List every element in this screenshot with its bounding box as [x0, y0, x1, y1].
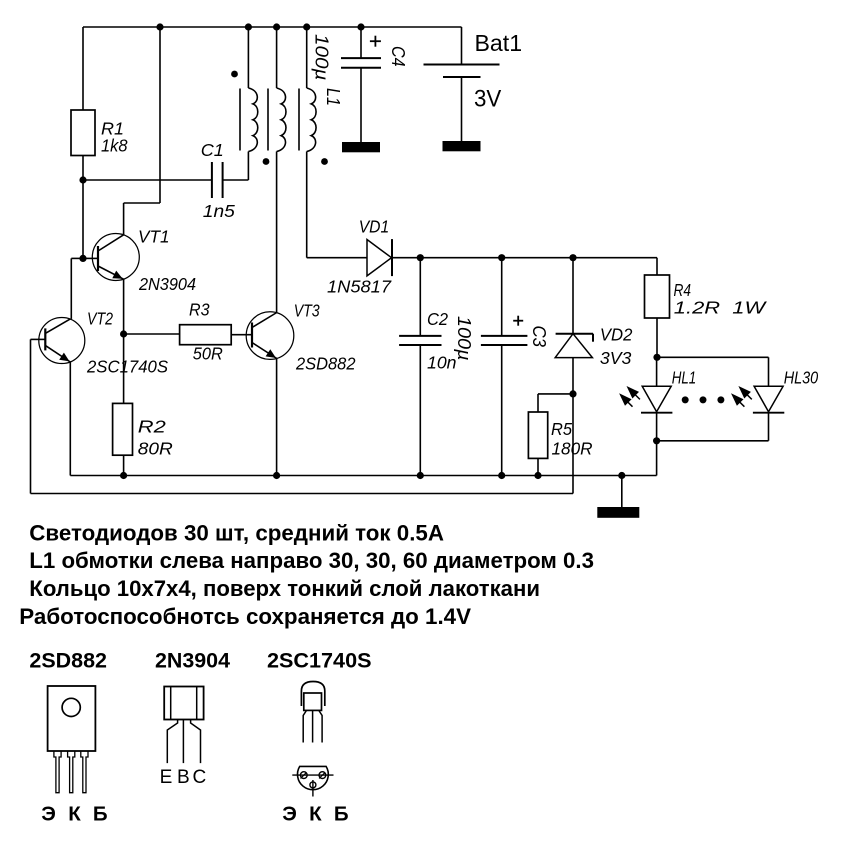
transistor VT3	[246, 312, 294, 360]
node R4/HL junction	[653, 354, 660, 361]
svg-text:E: E	[160, 767, 173, 788]
svg-text:Б: Б	[93, 803, 108, 826]
package 2SC1740S body	[304, 693, 322, 710]
svg-text:HL30: HL30	[784, 368, 819, 388]
wire HL1 cathode	[656, 413, 658, 441]
wire HL1 anode	[656, 357, 658, 386]
wire VT1 collector up	[123, 203, 125, 235]
wire top supply rail	[83, 26, 462, 28]
wire winding3 top	[306, 27, 308, 88]
wire R5 top	[538, 393, 573, 395]
node C2 top junction	[417, 254, 424, 261]
battery Bat1 long plate	[424, 64, 500, 66]
svg-text:К: К	[309, 803, 322, 826]
package 2N3904 leg C	[191, 720, 201, 764]
package 2SD882 hole	[62, 698, 80, 716]
svg-text:Кольцо 10х7х4, поверх тонкий с: Кольцо 10х7х4, поверх тонкий слой лакотк…	[29, 576, 540, 601]
node R2 on rail	[120, 472, 127, 479]
node winding2 top junction	[273, 23, 280, 30]
svg-text:180R: 180R	[552, 439, 593, 459]
svg-text:C4: C4	[388, 46, 408, 67]
wire HL top rail	[657, 356, 769, 358]
wire bottom emitter rail	[70, 475, 656, 477]
wire C3 bottom	[501, 345, 503, 476]
package 2SC1740S bottom view outline	[298, 766, 329, 789]
package 2N3904 leg E	[167, 720, 177, 764]
svg-text:2SC1740S: 2SC1740S	[86, 357, 168, 377]
svg-text:3V: 3V	[474, 86, 501, 113]
wire HL30 anode	[768, 357, 770, 386]
package 2SC1740S dome	[301, 682, 324, 707]
node winding1 top junction	[245, 23, 252, 30]
svg-text:50R: 50R	[193, 344, 223, 364]
wire to Bat1	[461, 27, 463, 65]
svg-text:2SC1740S: 2SC1740S	[267, 650, 372, 673]
wire R3 to VT3 base	[231, 334, 252, 336]
node C3 top junction	[498, 254, 505, 261]
package 2SC1740S pin E circle	[300, 772, 307, 779]
svg-text:R2: R2	[138, 417, 166, 437]
svg-text:100µ: 100µ	[312, 34, 332, 81]
LED HL30 arrows	[738, 386, 751, 399]
wire junction to R3	[124, 333, 180, 335]
wire winding3 to VD1	[307, 257, 367, 259]
svg-text:VD2: VD2	[600, 325, 633, 345]
zener diode VD2	[555, 334, 592, 358]
phase dot winding1	[231, 71, 238, 78]
package 2N3904 leg B	[182, 720, 184, 764]
ground main	[597, 507, 639, 518]
wire R1 bottom	[82, 156, 84, 181]
plus sign C4	[370, 40, 381, 42]
resistor R3	[180, 325, 232, 345]
svg-text:L1: L1	[323, 88, 343, 106]
svg-text:VT3: VT3	[294, 301, 320, 321]
svg-text:1n5: 1n5	[203, 201, 235, 221]
wire C1 to winding1	[223, 179, 249, 181]
wire VD1 cathode to R4	[392, 257, 657, 259]
svg-text:VT2: VT2	[87, 309, 113, 329]
node C2 bottom junction	[417, 472, 424, 479]
wire Bat1 bottom	[461, 77, 463, 141]
wire VT1 emitter down	[123, 279, 125, 334]
wire C3 top	[501, 258, 503, 336]
wire VT3 emitter down	[276, 358, 278, 475]
wire feedback bottom	[31, 493, 574, 495]
svg-text:C2: C2	[427, 309, 448, 329]
svg-text:1N5817: 1N5817	[327, 277, 392, 297]
package 2SC1740S crosshair	[292, 774, 333, 776]
svg-text:2N3904: 2N3904	[155, 650, 230, 673]
package 2SC1740S pin B circle	[319, 772, 326, 779]
svg-text:Э: Э	[282, 803, 297, 826]
svg-text:C: C	[193, 767, 207, 788]
ground Bat1	[443, 141, 481, 151]
resistor R4	[645, 275, 670, 318]
package 2SD882 body	[48, 686, 96, 751]
diode VD1	[367, 240, 392, 276]
capacitor C2	[399, 335, 441, 337]
wire winding2 top	[276, 27, 278, 88]
svg-text:2N3904: 2N3904	[138, 274, 196, 294]
wire vertical from top rail to VT1 collector jog	[159, 27, 161, 203]
node C3 bottom junction	[498, 472, 505, 479]
node top rail junction x160	[156, 23, 163, 30]
transistor VT2	[39, 318, 85, 364]
node VT3 emitter on rail	[273, 472, 280, 479]
wire VT1 base	[83, 257, 98, 259]
svg-text:C3: C3	[529, 326, 549, 348]
capacitor C3	[481, 335, 528, 337]
inductor L1 winding 3	[307, 88, 316, 152]
svg-text:Светодиодов 30 шт, средний ток: Светодиодов 30 шт, средний ток 0.5А	[29, 521, 444, 546]
node winding3 top junction	[303, 23, 310, 30]
capacitor C1	[211, 162, 213, 198]
wire junction to R2	[123, 334, 125, 403]
svg-text:2SD882: 2SD882	[29, 650, 107, 673]
svg-text:VT1: VT1	[138, 227, 170, 247]
transformer L1 core bar 2	[267, 89, 269, 151]
svg-text:R3: R3	[189, 300, 210, 320]
svg-text:Работоспособнотсь сохраняется: Работоспособнотсь сохраняется до 1.4V	[19, 604, 471, 629]
wire C4 bottom	[360, 68, 362, 142]
wire ground stub	[621, 476, 623, 508]
phase dot winding3	[321, 158, 328, 165]
wire jog to VT1 collector	[124, 202, 160, 204]
node R5 bottom junction	[534, 472, 541, 479]
node VD2/R5 junction	[569, 390, 576, 397]
wire winding2 to VT3 collector	[276, 152, 278, 314]
wire HL bottom rail	[657, 440, 769, 442]
wire R5 bottom	[537, 458, 539, 475]
node VT1 emitter/R3/R2 junction	[120, 330, 127, 337]
svg-text:Э: Э	[41, 803, 56, 826]
wire to C1	[83, 179, 212, 181]
phase dot winding2	[263, 158, 270, 165]
svg-text:Bat1: Bat1	[475, 30, 523, 56]
battery Bat1 short plate	[443, 76, 481, 78]
package 2N3904 bevel lines	[170, 687, 172, 720]
capacitor C4	[341, 57, 381, 59]
wire HL30 cathode	[768, 413, 770, 441]
svg-text:2SD882: 2SD882	[295, 354, 356, 374]
transformer L1 core bar 3	[298, 89, 300, 151]
ellipsis dots between LEDs	[682, 396, 689, 403]
svg-text:100µ: 100µ	[454, 316, 474, 361]
wire VD2 anode down	[572, 358, 574, 494]
svg-text:3V3: 3V3	[600, 348, 632, 368]
svg-text:1k8: 1k8	[101, 136, 128, 156]
wire VD1 row to R4	[656, 258, 658, 275]
plus sign C3	[513, 320, 523, 322]
wire feedback left vertical	[30, 339, 32, 493]
wire VD2 top	[572, 258, 574, 334]
resistor R2	[113, 403, 133, 455]
package 2N3904 body	[164, 687, 203, 720]
svg-text:Б: Б	[334, 803, 349, 826]
svg-text:L1 обмотки слева направо 30, 3: L1 обмотки слева направо 30, 30, 60 диам…	[29, 548, 594, 573]
package 2SD882 legs	[54, 751, 61, 793]
wire VT2 base	[31, 338, 46, 340]
svg-text:C1: C1	[201, 140, 224, 160]
ground C4	[342, 142, 380, 152]
node VT1 base junction	[79, 255, 86, 262]
transistor VT1	[92, 234, 139, 281]
wire R4 bottom	[656, 318, 658, 357]
wire VT1 base jog	[71, 257, 83, 259]
LED HL30	[754, 386, 783, 412]
inductor L1 winding 2	[277, 88, 286, 152]
svg-text:R5: R5	[551, 419, 572, 439]
wire winding3 down	[306, 152, 308, 258]
wire R2 bottom	[123, 455, 125, 475]
wire HL1 bottom to rail	[656, 441, 658, 476]
wire C4 top	[360, 27, 362, 58]
svg-text:B: B	[177, 767, 190, 788]
node R1/C1 junction	[79, 176, 86, 183]
svg-text:К: К	[68, 803, 81, 826]
node HL1 bottom junction	[653, 437, 660, 444]
LED HL1 arrows	[627, 386, 640, 399]
wire C2 top	[419, 258, 421, 336]
package 2SC1740S pin K circle	[310, 782, 316, 788]
inductor L1 winding 1	[248, 88, 257, 152]
package 2SC1740S legs	[303, 710, 306, 742]
node C4 top junction	[357, 23, 364, 30]
LED HL1	[642, 386, 671, 412]
svg-text:1.2R 1W: 1.2R 1W	[674, 298, 767, 318]
wire base feed down	[82, 180, 84, 258]
wire winding1 top	[247, 27, 249, 88]
resistor R1	[71, 110, 95, 156]
wire VT2 emitter down	[69, 362, 71, 476]
wire C2 bottom	[419, 345, 421, 476]
svg-text:VD1: VD1	[359, 217, 390, 237]
node VD2 top junction	[569, 254, 576, 261]
wire R1 top	[82, 27, 84, 110]
resistor R5	[528, 412, 547, 458]
svg-text:10n: 10n	[427, 353, 457, 373]
transformer L1 core bar 1	[239, 89, 241, 151]
svg-text:HL1: HL1	[672, 368, 697, 388]
node ground junction on rail	[618, 472, 625, 479]
svg-text:80R: 80R	[138, 439, 173, 459]
wire VT2 collector up	[70, 258, 72, 319]
